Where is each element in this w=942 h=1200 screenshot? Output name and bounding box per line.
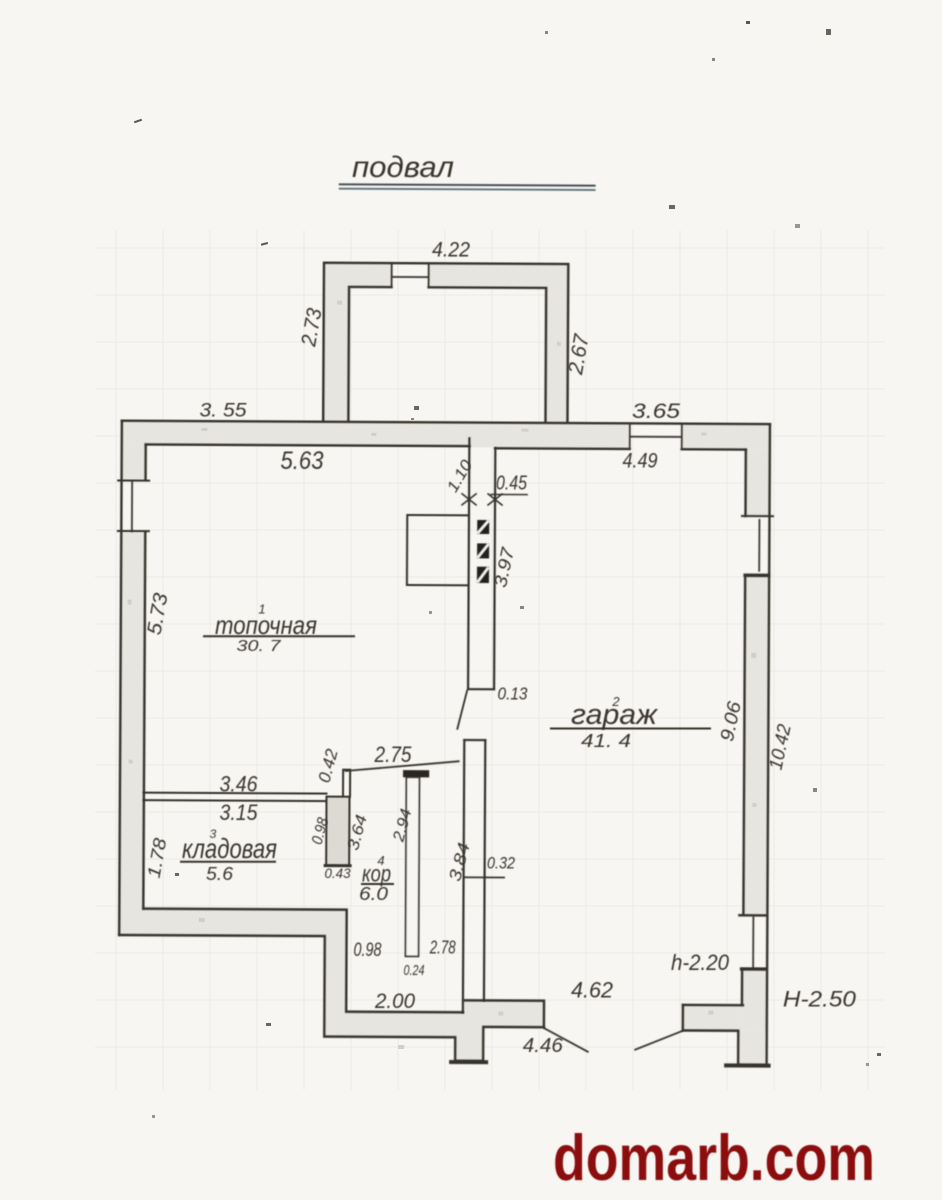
svg-text:6.0: 6.0 <box>359 884 388 904</box>
porch opening edges <box>392 263 429 287</box>
0.42 wall stub <box>343 770 350 797</box>
svg-text:5.6: 5.6 <box>206 864 234 884</box>
svg-text:5.63: 5.63 <box>281 447 324 475</box>
svg-text:4.22: 4.22 <box>432 239 470 262</box>
left window glazing line <box>131 482 133 532</box>
svg-text:3.15: 3.15 <box>220 800 259 825</box>
lower partition wall left line <box>463 740 464 1012</box>
flue vent 3 <box>477 567 489 583</box>
porch inner outline left of opening <box>348 287 391 422</box>
porch left wall fill <box>323 262 349 422</box>
svg-text:0.13: 0.13 <box>498 684 528 704</box>
main top wall fill right of 3.65 opening <box>682 423 770 448</box>
bottom-left wall band fill <box>118 908 545 1061</box>
main top wall fill left of 3.65 opening <box>122 421 630 449</box>
svg-text:2.78: 2.78 <box>429 938 456 958</box>
svg-text:гараж: гараж <box>571 699 658 731</box>
svg-text:0.24: 0.24 <box>404 962 425 979</box>
chimney box <box>407 515 469 585</box>
right window2 glazing line <box>752 917 754 966</box>
right wall fill below window 2 <box>742 970 767 1031</box>
door tick X on partition right line <box>488 494 502 505</box>
lower partition wall right line <box>484 740 485 1000</box>
porch top wall fill (left of opening) <box>324 262 392 286</box>
svg-text:domarb.com: domarb.com <box>553 1121 875 1194</box>
upper partition wall right line <box>494 448 495 689</box>
scan noise specks <box>134 119 142 124</box>
flue vent 1 <box>477 520 489 534</box>
right protrusion bottom cap <box>726 1063 768 1067</box>
pillar fill <box>326 797 349 866</box>
0.32 dim line <box>465 876 504 878</box>
left wall inner line above window <box>144 444 147 480</box>
wall speckle noise <box>125 300 759 1051</box>
main top wall inner line right of opening <box>682 448 746 451</box>
lower partition top cap <box>464 739 485 741</box>
garage door left jamb <box>464 1000 544 1027</box>
left wall fill below window <box>119 533 145 935</box>
main top wall inner line left section <box>146 444 470 446</box>
svg-text:30. 7: 30. 7 <box>237 638 282 655</box>
right bottom protrusion fill <box>738 1031 765 1065</box>
svg-text:кор: кор <box>362 861 391 887</box>
bottom-left outer boundary <box>119 935 545 1061</box>
svg-text:3.65: 3.65 <box>632 400 680 423</box>
right wall inner line between windows <box>743 576 745 913</box>
svg-text:2.00: 2.00 <box>374 990 415 1013</box>
left wall outer line <box>119 421 122 935</box>
svg-text:0.45: 0.45 <box>496 473 528 495</box>
pillar outline <box>326 797 349 866</box>
title double underline <box>340 184 595 185</box>
svg-text:4.49: 4.49 <box>623 450 658 473</box>
porch inner outline right of opening <box>428 287 546 422</box>
room 4 underline <box>361 883 394 885</box>
room 2 underline <box>550 728 711 730</box>
3.65 opening sill lines <box>630 424 682 448</box>
thin partition 3.46 upper line <box>144 792 327 795</box>
room 3 underline <box>180 861 276 863</box>
svg-text:4.62: 4.62 <box>571 978 613 1003</box>
porch outer outline <box>323 263 568 423</box>
right wall fill above window 1 <box>745 449 770 516</box>
svg-text:41. 4: 41. 4 <box>581 730 631 751</box>
svg-text:2.75: 2.75 <box>374 742 413 767</box>
right wall inner line above window1 <box>744 450 747 516</box>
left protrusion bottom cap <box>451 1060 486 1064</box>
storage bottom inner line and step to corridor <box>143 909 464 1013</box>
svg-text:0.43: 0.43 <box>325 866 351 881</box>
pillar bottom cap <box>325 864 350 867</box>
right window1 ticks <box>742 515 773 517</box>
thin partition 3.46 lower line <box>144 799 327 802</box>
svg-text:4.46: 4.46 <box>523 1035 564 1057</box>
svg-text:0.98: 0.98 <box>354 940 382 961</box>
left window ticks <box>118 480 149 531</box>
main top wall inner line mid-right section <box>495 447 629 450</box>
2.75 diagonal leader <box>346 761 459 772</box>
left wall inner line below window <box>143 533 145 908</box>
faint graph grid horizontals <box>95 248 885 1047</box>
flue vent 2 <box>477 543 489 558</box>
radiator column <box>405 777 419 956</box>
garage door right jamb and bottom wall <box>683 1005 767 1065</box>
upper partition bottom cap <box>468 688 494 690</box>
garage gate right door leaf <box>635 1031 682 1050</box>
garage gate left door leaf <box>544 1028 588 1052</box>
room 1 underline <box>203 635 355 637</box>
right wall outer line <box>767 424 770 1065</box>
left wall fill above window <box>122 446 146 481</box>
door tick X on partition left line <box>462 494 476 505</box>
right window1 glazing line <box>758 520 760 571</box>
radiator top cap <box>403 770 429 777</box>
garage bottom inner line <box>683 1004 743 1007</box>
svg-text:3.46: 3.46 <box>220 772 259 797</box>
0.45 dim underline <box>491 493 527 495</box>
right wall fill between windows <box>743 576 769 914</box>
right wall inner line below window2 <box>741 970 744 1005</box>
svg-text:0.32: 0.32 <box>487 855 515 873</box>
svg-text:кладовая: кладовая <box>182 833 277 864</box>
faint graph grid verticals <box>116 230 868 1090</box>
svg-text:H-2.50: H-2.50 <box>783 987 857 1012</box>
svg-text:3. 55: 3. 55 <box>200 400 247 422</box>
door leaf at partition bottom <box>457 691 467 729</box>
main top wall outer line <box>122 421 770 424</box>
upper partition wall left line <box>468 438 469 689</box>
svg-text:подвал: подвал <box>352 151 454 184</box>
porch top wall fill (right of opening) <box>429 262 570 287</box>
porch right wall fill <box>545 263 569 423</box>
svg-text:h-2.20: h-2.20 <box>671 950 730 975</box>
garage bottom wall fill <box>683 1005 743 1031</box>
right window2 ticks <box>739 914 765 917</box>
